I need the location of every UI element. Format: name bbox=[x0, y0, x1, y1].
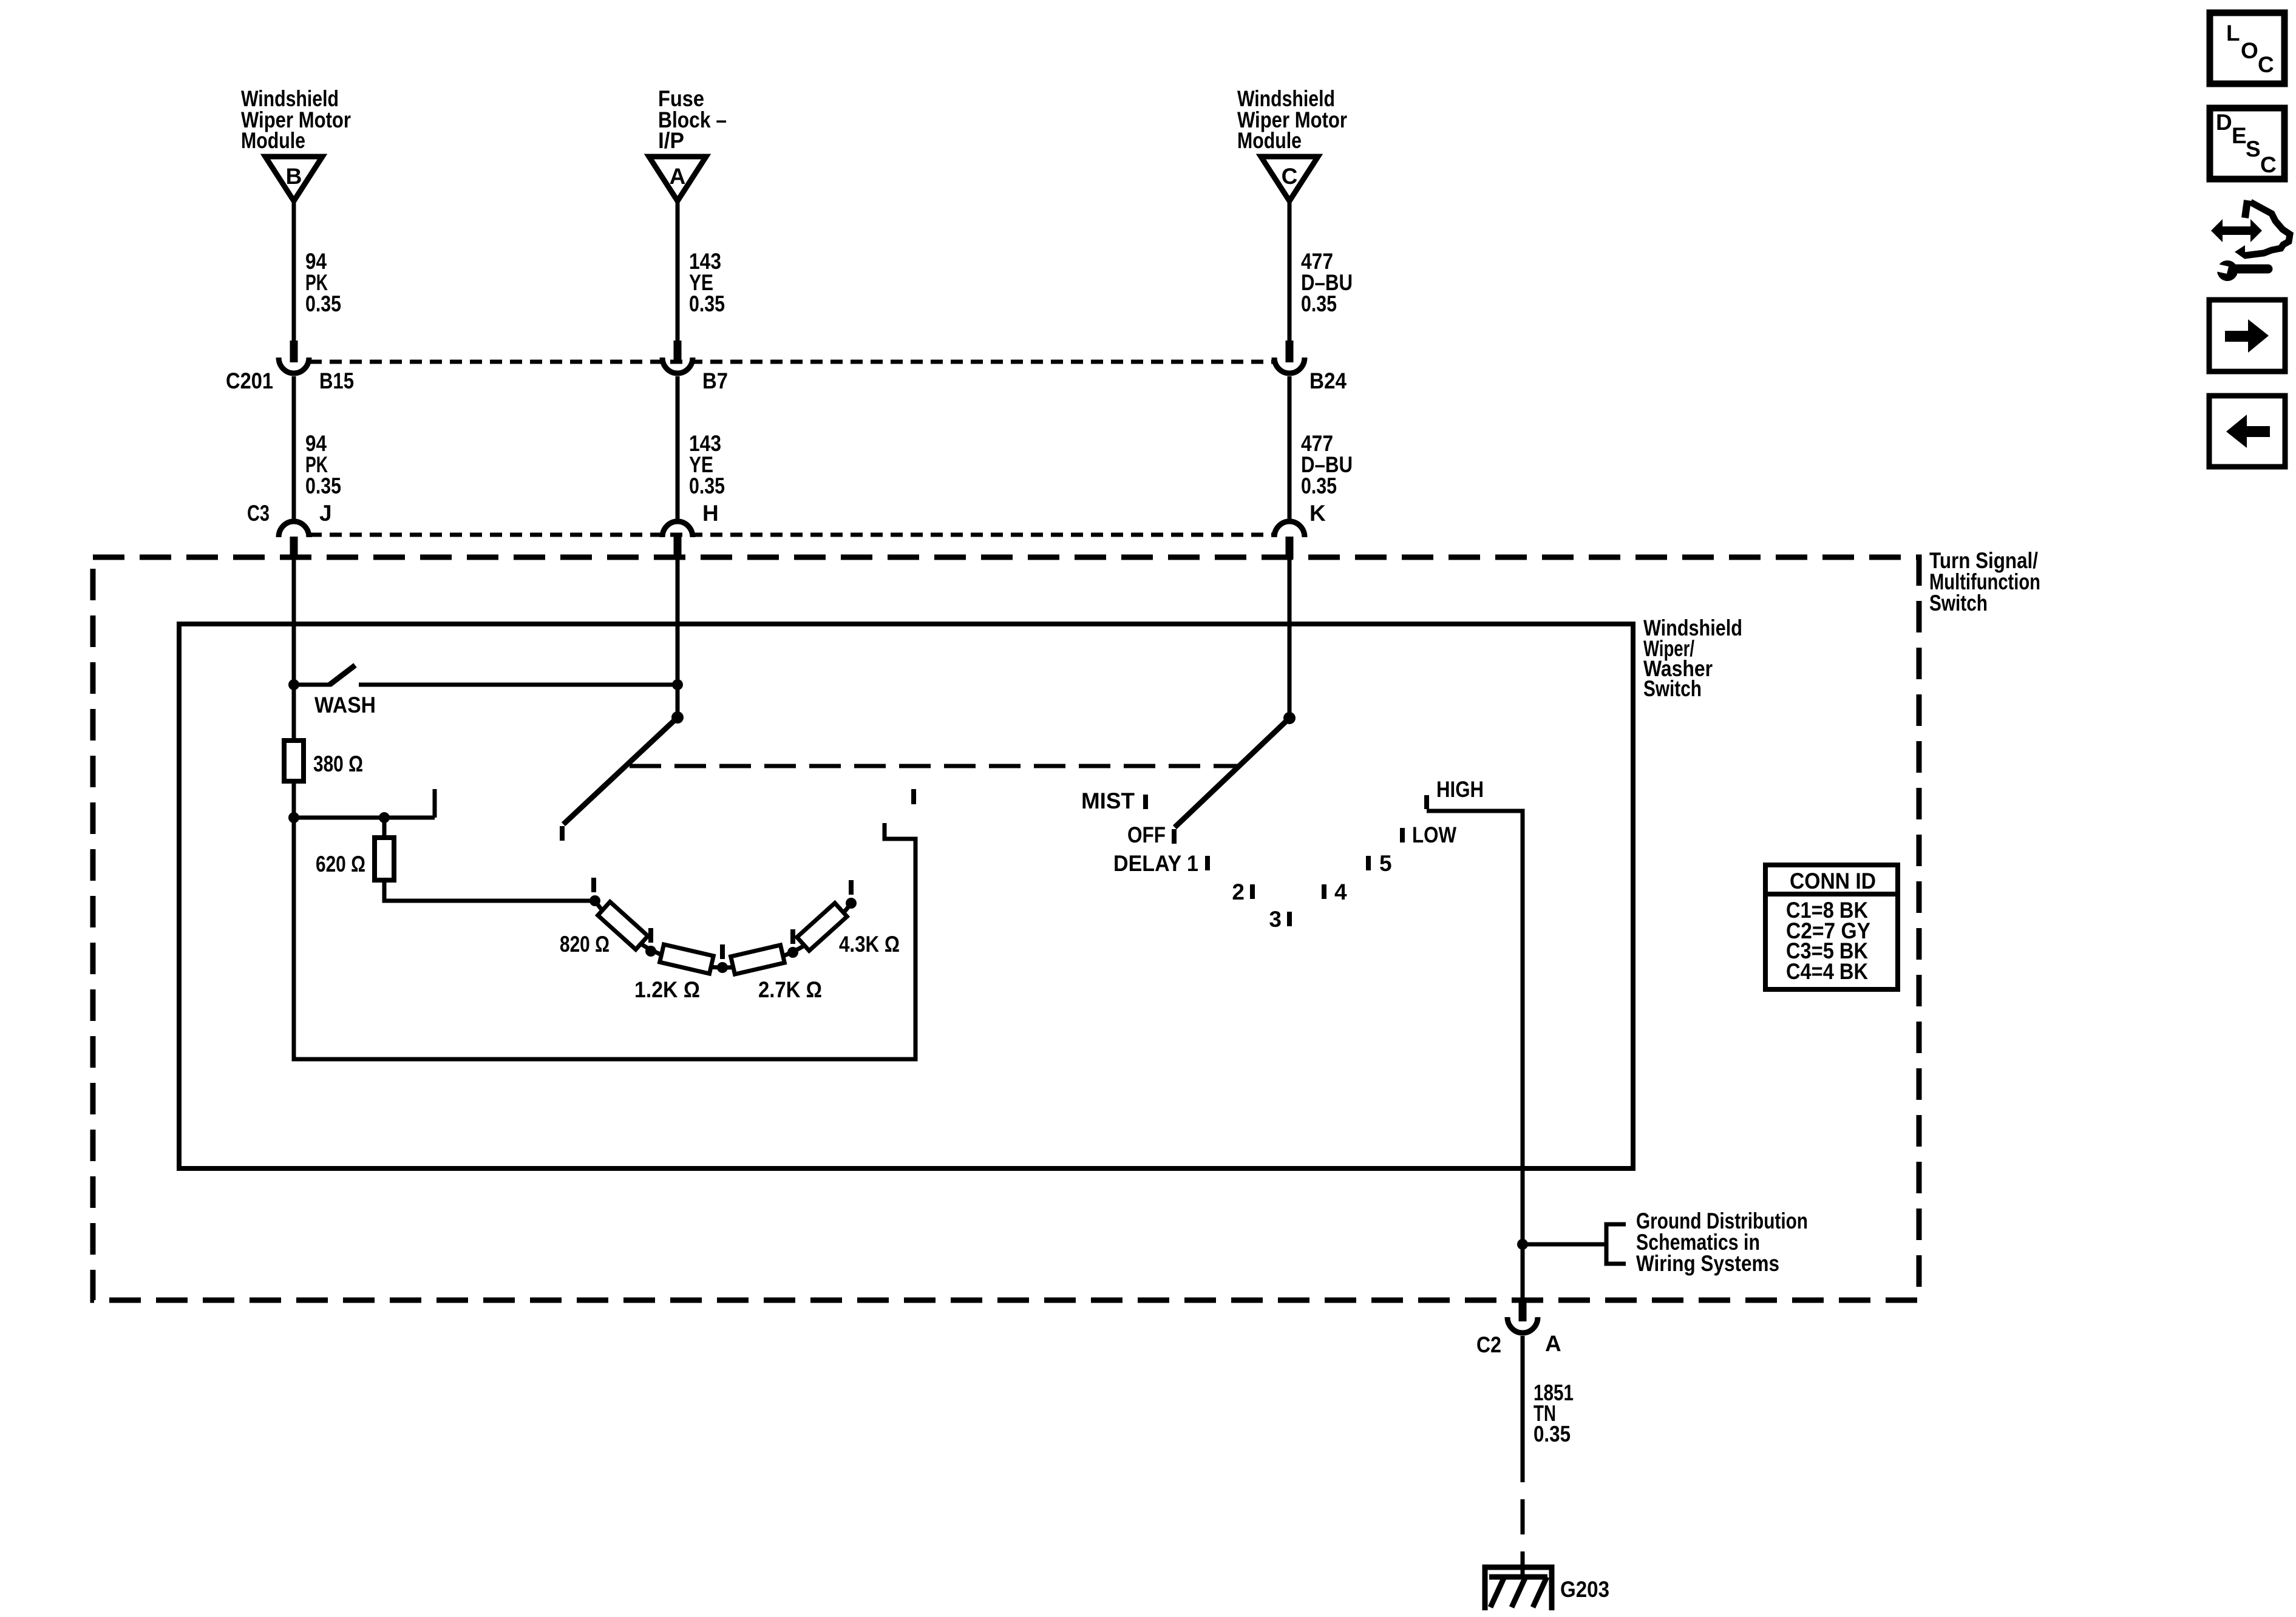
wire A into switch bbox=[676, 559, 680, 717]
label 5 bbox=[1379, 851, 1392, 876]
connector cup C201 x=2124 bbox=[1274, 358, 1305, 373]
label C2 bbox=[1476, 1332, 1501, 1357]
label 620 ohm bbox=[316, 852, 365, 876]
label LOW bbox=[1412, 822, 1456, 847]
svg-text:MIST: MIST bbox=[1081, 788, 1135, 813]
wire label 477 (lower) bbox=[1301, 431, 1353, 498]
HIGH contact wire down bbox=[1427, 811, 1523, 1300]
wire label 477 (upper) bbox=[1301, 249, 1353, 316]
svg-text:I/P: I/P bbox=[658, 128, 684, 153]
svg-text:S: S bbox=[2246, 137, 2261, 161]
wire upper drop x=1116 bbox=[676, 201, 680, 341]
wire below C2 bbox=[1521, 1336, 1525, 1482]
ground symbol G203 bbox=[1485, 1567, 1552, 1610]
sidebar icon DESC bbox=[2210, 108, 2284, 179]
svg-text:Wiring Systems: Wiring Systems bbox=[1636, 1251, 1779, 1276]
svg-text:G203: G203 bbox=[1560, 1577, 1609, 1602]
ground distribution bracket bbox=[1606, 1224, 1626, 1264]
connector dome C3 x=484 bbox=[279, 521, 309, 537]
contact tick 4 bbox=[1322, 884, 1326, 899]
label 380 ohm bbox=[313, 751, 363, 776]
sidebar icon next arrow bbox=[2209, 300, 2285, 371]
junction dot wire A at WASH line bbox=[672, 679, 683, 690]
svg-text:4.3K Ω: 4.3K Ω bbox=[839, 932, 900, 957]
label 4 bbox=[1334, 880, 1347, 904]
label Windshield Wiper/Washer Switch bbox=[1643, 615, 1742, 701]
svg-text:1.2K Ω: 1.2K Ω bbox=[634, 977, 700, 1002]
svg-text:5: 5 bbox=[1379, 851, 1392, 876]
svg-text:0.35: 0.35 bbox=[689, 291, 725, 316]
svg-text:CONN ID: CONN ID bbox=[1790, 869, 1876, 893]
wire B below 380 bbox=[292, 781, 296, 818]
wire label 94 (upper) bbox=[305, 249, 341, 316]
connector triangle B bbox=[265, 157, 322, 201]
svg-text:4: 4 bbox=[1334, 880, 1347, 904]
terminal bar below C3 x=2124 bbox=[1286, 537, 1294, 559]
svg-text:2.7K Ω: 2.7K Ω bbox=[758, 977, 822, 1002]
component label: Windshield Wiper Motor Module (left) bbox=[241, 86, 351, 153]
wire label 143 (lower) bbox=[689, 431, 725, 498]
label 2.7K ohm bbox=[758, 977, 822, 1002]
sidebar icon repair (double arrow, hose, wrench) bbox=[2211, 200, 2290, 281]
wire from 620 to resistor arc bbox=[384, 880, 595, 901]
svg-text:K: K bbox=[1309, 501, 1326, 526]
delay resistor network return loop bbox=[294, 818, 915, 1059]
wire label 94 (lower) bbox=[305, 431, 341, 498]
wire upper drop x=2124 bbox=[1288, 201, 1292, 341]
label 4.3K ohm bbox=[839, 932, 900, 957]
terminal bar below C3 x=1116 bbox=[674, 537, 682, 559]
svg-text:Switch: Switch bbox=[1643, 676, 1702, 701]
dashed box: Turn Signal / Multifunction Switch bbox=[93, 557, 1919, 1300]
arc tap tick 3 bbox=[720, 944, 725, 959]
dotted connector line C3 bbox=[310, 533, 1274, 537]
svg-text:820 Ω: 820 Ω bbox=[560, 932, 610, 957]
svg-text:L: L bbox=[2226, 21, 2240, 46]
blade end contact tick (delay wafer) bbox=[560, 826, 565, 841]
mechanical linkage dashed line bbox=[630, 764, 1238, 768]
svg-text:C: C bbox=[1282, 164, 1298, 189]
arc tap dot 4 bbox=[787, 947, 798, 958]
arc tap dot 3 bbox=[717, 962, 728, 973]
contact tick 2 bbox=[1250, 884, 1255, 899]
connector dome C3 x=2124 bbox=[1274, 521, 1305, 537]
sidebar icon LOC bbox=[2210, 13, 2284, 84]
pin label B15 bbox=[319, 368, 354, 393]
label DELAY 1 bbox=[1113, 851, 1198, 876]
svg-text:O: O bbox=[2241, 38, 2258, 63]
label 1.2K ohm bbox=[634, 977, 700, 1002]
svg-text:0.35: 0.35 bbox=[305, 473, 341, 498]
svg-text:C2: C2 bbox=[1476, 1332, 1501, 1357]
svg-text:HIGH: HIGH bbox=[1436, 777, 1484, 802]
svg-text:H: H bbox=[702, 501, 719, 526]
svg-text:3: 3 bbox=[1269, 907, 1282, 932]
junction dot to ground distribution bbox=[1517, 1239, 1528, 1250]
junction dot at WASH pole bbox=[288, 679, 299, 690]
stationary contact stub (left) bbox=[433, 789, 437, 818]
svg-text:0.35: 0.35 bbox=[305, 291, 341, 316]
svg-text:2: 2 bbox=[1232, 880, 1245, 904]
component label: Windshield Wiper Motor Module (right) bbox=[1237, 86, 1347, 153]
wire label 143 (upper) bbox=[689, 249, 725, 316]
arc tap dot 2 bbox=[645, 946, 656, 957]
label WASH bbox=[314, 693, 376, 717]
resistor 2.7K ohm (on arc) bbox=[731, 945, 785, 974]
CONN ID table box bbox=[1765, 865, 1898, 989]
label HIGH bbox=[1436, 777, 1484, 802]
svg-text:LOW: LOW bbox=[1412, 822, 1456, 847]
svg-text:C201: C201 bbox=[226, 368, 273, 393]
wire B into switch bbox=[292, 559, 296, 741]
pin label J bbox=[319, 501, 332, 526]
pin label B7 bbox=[702, 368, 728, 393]
wire middle segment x=1116 bbox=[676, 376, 680, 522]
wire middle segment x=484 bbox=[292, 376, 296, 522]
svg-text:B: B bbox=[286, 164, 302, 189]
wire middle segment x=2124 bbox=[1288, 376, 1292, 522]
svg-text:0.35: 0.35 bbox=[1533, 1422, 1571, 1446]
switch WASH fixed contact wire bbox=[359, 683, 678, 687]
contact tick 5 bbox=[1366, 856, 1371, 870]
label Turn Signal/Multifunction Switch bbox=[1929, 548, 2040, 615]
resistor 380 ohm bbox=[284, 741, 304, 781]
contact tick OFF bbox=[1172, 829, 1177, 844]
label C201 bbox=[226, 368, 273, 393]
pin label B24 bbox=[1309, 368, 1347, 393]
junction dot at 620 branch bbox=[379, 812, 390, 823]
svg-text:0.35: 0.35 bbox=[1301, 473, 1337, 498]
svg-text:A: A bbox=[1545, 1331, 1561, 1356]
svg-text:E: E bbox=[2232, 123, 2247, 148]
arc tap tick 2 bbox=[648, 928, 653, 943]
contact tick MIST bbox=[1143, 795, 1148, 809]
arc tap tick 1 bbox=[591, 878, 596, 892]
arc tap dot 1 bbox=[589, 895, 600, 906]
junction dot below 380 bbox=[288, 812, 299, 823]
svg-text:OFF: OFF bbox=[1127, 822, 1166, 847]
resistor 620 ohm bbox=[375, 838, 394, 880]
svg-text:Module: Module bbox=[241, 128, 305, 153]
switch WASH blade bbox=[330, 665, 355, 685]
terminal bar at C201 x=1116 bbox=[674, 341, 682, 362]
label 820 ohm bbox=[560, 932, 610, 957]
svg-text:B24: B24 bbox=[1309, 368, 1347, 393]
contact tick DELAY 1 bbox=[1205, 856, 1210, 870]
label C3 bbox=[247, 501, 270, 526]
arc tap tick 4 bbox=[790, 929, 795, 944]
svg-text:C: C bbox=[2260, 152, 2277, 177]
resistor arc curve bbox=[595, 901, 851, 968]
svg-text:0.35: 0.35 bbox=[689, 473, 725, 498]
rotary blade (delay wafer) bbox=[563, 717, 678, 824]
pin label K bbox=[1309, 501, 1326, 526]
sidebar icon previous arrow bbox=[2209, 396, 2285, 467]
svg-text:Module: Module bbox=[1237, 128, 1302, 153]
stationary contact tick (right) bbox=[911, 789, 916, 804]
terminal bar at C201 x=484 bbox=[290, 341, 298, 362]
contact tick 3 bbox=[1287, 912, 1292, 926]
CONN ID title bbox=[1790, 869, 1876, 893]
svg-text:WASH: WASH bbox=[314, 693, 376, 717]
wire to left stationary contact bbox=[294, 816, 435, 820]
svg-text:J: J bbox=[319, 501, 332, 526]
connector triangle C bbox=[1261, 157, 1318, 201]
label 2 bbox=[1232, 880, 1245, 904]
wire upper drop x=484 bbox=[292, 201, 296, 341]
svg-text:B7: B7 bbox=[702, 368, 728, 393]
pin label H bbox=[702, 501, 719, 526]
solid box: Windshield Wiper/Washer Switch bbox=[179, 624, 1633, 1168]
svg-text:620 Ω: 620 Ω bbox=[316, 852, 365, 876]
connector cup C201 x=484 bbox=[279, 358, 309, 373]
dotted connector line C201 bbox=[310, 360, 1274, 364]
connector cup C201 x=1116 bbox=[662, 358, 693, 373]
CONN ID rows bbox=[1786, 898, 1870, 984]
wire into ground symbol bbox=[1521, 1551, 1525, 1577]
label G203 bbox=[1560, 1577, 1609, 1602]
contact tick HIGH bbox=[1424, 795, 1429, 809]
connector cup C2 bbox=[1507, 1317, 1538, 1333]
terminal bar at C2 bbox=[1519, 1300, 1527, 1321]
svg-text:380 Ω: 380 Ω bbox=[313, 751, 363, 776]
resistor 820 ohm (on arc) bbox=[598, 902, 648, 950]
resistor 4.3K ohm (on arc) bbox=[797, 903, 847, 951]
terminal bar below C3 x=484 bbox=[290, 537, 298, 559]
svg-text:D: D bbox=[2216, 110, 2232, 135]
label OFF bbox=[1127, 822, 1166, 847]
wire to ground distribution bracket bbox=[1523, 1242, 1606, 1247]
svg-text:DELAY 1: DELAY 1 bbox=[1113, 851, 1198, 876]
svg-text:C4=4 BK: C4=4 BK bbox=[1786, 959, 1868, 984]
svg-text:0.35: 0.35 bbox=[1301, 291, 1337, 316]
label MIST bbox=[1081, 788, 1135, 813]
dashed wire to ground bbox=[1521, 1499, 1525, 1534]
label Ground Distribution Schematics in Wiring Systems bbox=[1636, 1209, 1808, 1276]
rotary blade (mode wafer) bbox=[1175, 718, 1289, 827]
connector dome C3 x=1116 bbox=[662, 521, 693, 537]
resistor 1.2K ohm (on arc) bbox=[660, 944, 714, 974]
arc tap dot 5 bbox=[846, 898, 857, 909]
contact tick LOW bbox=[1400, 828, 1405, 842]
rotary pivot dot (mode wafer) bbox=[1283, 712, 1296, 724]
rotary pivot dot (delay wafer) bbox=[671, 711, 684, 724]
wire into 620 bbox=[382, 818, 387, 838]
svg-text:C3: C3 bbox=[247, 501, 270, 526]
label 3 bbox=[1269, 907, 1282, 932]
terminal bar at C201 x=2124 bbox=[1286, 341, 1294, 362]
svg-text:C: C bbox=[2258, 52, 2274, 77]
component label: Fuse Block - I/P bbox=[658, 86, 727, 153]
wire C into switch bbox=[1288, 559, 1292, 718]
arc tap tick 5 bbox=[849, 880, 854, 895]
svg-text:Switch: Switch bbox=[1929, 591, 1988, 615]
svg-text:B15: B15 bbox=[319, 368, 354, 393]
pin label A (C2) bbox=[1545, 1331, 1561, 1356]
connector triangle A bbox=[649, 157, 706, 201]
switch WASH pole stub bbox=[294, 683, 331, 687]
wire label 1851 TN 0.35 bbox=[1533, 1380, 1574, 1446]
svg-text:A: A bbox=[670, 164, 686, 189]
